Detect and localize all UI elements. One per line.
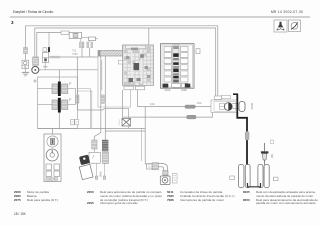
label box right of F1 — [172, 174, 177, 183]
svg-text:(M): (M) — [270, 154, 274, 158]
bolt terminal — [261, 143, 269, 165]
plus sign — [33, 79, 36, 82]
svg-text:2: 2 — [119, 123, 121, 126]
sleeve pair P1 — [80, 42, 84, 48]
icon box 1 (lamp symbol) — [274, 20, 287, 32]
coil link wire — [75, 89, 77, 105]
sleeve on W2 — [187, 115, 196, 119]
horn component F1 — [160, 176, 170, 185]
junction box JB — [98, 57, 131, 108]
wire long V-L1 — [94, 56, 101, 140]
key symbol — [79, 155, 93, 180]
wire T3 drop to R1 — [48, 32, 50, 47]
junction circle C1 — [32, 66, 39, 73]
starter relay box — [211, 100, 237, 113]
label D36 — [230, 176, 235, 180]
header left text — [13, 11, 53, 14]
svg-text:2060: 2060 — [250, 102, 254, 109]
battery cable — [237, 94, 247, 167]
module bottom label 1 — [124, 86, 134, 90]
coil 2 down wire — [58, 113, 60, 129]
sleeve on left wire — [24, 48, 28, 54]
svg-text:F: F — [69, 82, 71, 86]
frame bar 2 — [245, 165, 250, 188]
wire top T1 — [26, 26, 218, 96]
elbow boot — [158, 164, 167, 176]
nested enclosure corner — [78, 89, 92, 128]
header right text — [271, 11, 303, 14]
coil 2 stub left — [38, 104, 53, 106]
sleeve on W1 — [185, 105, 195, 108]
label D14 — [273, 177, 278, 181]
legend group 3 — [167, 191, 174, 194]
legend group 2 — [87, 191, 94, 194]
fuse box label right — [196, 49, 200, 54]
wire long V-L2 — [104, 56, 106, 140]
harness cap — [98, 50, 100, 57]
legend group 4 — [243, 191, 250, 194]
bus wire to box — [49, 56, 99, 58]
key transponder sleeve B — [102, 140, 108, 151]
key connector pigtails — [97, 163, 105, 176]
elbow sleeve — [163, 171, 168, 176]
wire B2-B3 — [82, 37, 89, 39]
enclosure box around coils — [38, 77, 78, 129]
battery cable top — [233, 93, 238, 95]
coil 1 stub left — [38, 88, 53, 90]
wire H2 long — [38, 128, 146, 130]
ground G2 — [43, 67, 48, 70]
svg-text:160a: 160a — [99, 171, 103, 177]
module bottom label 2 — [135, 86, 145, 90]
connector under sleeve B — [103, 152, 109, 164]
sleeve pair P2 — [87, 42, 93, 48]
wire to starter motor connector — [25, 54, 27, 61]
sheet number 3 — [11, 21, 14, 24]
sleeve on V-L1 — [101, 95, 104, 103]
legend group 1 — [14, 191, 21, 194]
frame bar 1 — [239, 165, 244, 188]
wire parallel — [141, 129, 143, 162]
relay R1 body — [43, 53, 49, 63]
component B2 — [69, 32, 81, 38]
label box B1 — [61, 31, 69, 34]
relay R1 label — [43, 48, 47, 52]
component B3 — [89, 37, 96, 41]
ignition switch module M1 — [44, 134, 61, 182]
wire B3 to box — [96, 38, 99, 40]
wire H3 — [105, 130, 145, 132]
central module U1 — [123, 45, 154, 86]
wire down from P1 — [81, 48, 83, 57]
connector row C2 — [147, 163, 159, 170]
module feed wire — [148, 28, 150, 45]
hatched band segment — [50, 56, 60, 59]
fuse box FB — [161, 44, 195, 88]
sleeve on W3 — [76, 95, 79, 103]
relay R1 connector bar — [48, 47, 50, 52]
svg-text:210b: 210b — [181, 88, 187, 92]
M1 feed wire — [52, 129, 54, 135]
svg-text:16A: 16A — [150, 102, 155, 106]
key transponder sleeve A — [92, 140, 97, 149]
cable sleeve — [245, 132, 249, 141]
frame bar 4 — [264, 165, 269, 188]
module left pin box — [118, 60, 122, 64]
connector K1 — [22, 60, 29, 68]
wire to ground G1 — [25, 69, 27, 73]
relay label box — [222, 95, 231, 98]
icon box 2 (crossed symbol) — [289, 20, 301, 32]
X connector X1 — [122, 118, 131, 126]
hatched harness band — [98, 51, 123, 57]
wire down from P2 — [89, 48, 91, 57]
header rule — [10, 16, 310, 18]
svg-text:210a: 210a — [165, 88, 171, 92]
svg-text:7080: 7080 — [72, 53, 78, 56]
wire W2 from module — [123, 90, 213, 117]
coil 1 stub right — [68, 88, 76, 90]
wire top T3 — [37, 32, 61, 57]
frame bar 3 — [258, 165, 263, 188]
wire H4 — [77, 109, 128, 119]
wire B2 to sleeve P1 — [80, 39, 82, 42]
page number — [14, 213, 26, 216]
ground strap link — [248, 183, 261, 187]
wire to ground — [44, 63, 46, 67]
connector under sleeve A — [89, 152, 100, 163]
wire down to connector row — [145, 107, 147, 165]
ground G1 — [22, 72, 29, 76]
sleeve S2 — [33, 57, 39, 65]
T wires connector box — [215, 96, 222, 99]
coil 2 stub right — [68, 104, 76, 106]
wire W1 from module — [138, 90, 216, 107]
svg-text:F: F — [69, 98, 71, 102]
svg-text:16A: 16A — [197, 101, 202, 105]
bolt top mark — [270, 140, 274, 144]
label pair above B4 — [71, 119, 79, 124]
wire H1 — [39, 69, 98, 71]
ignition coil 1 — [52, 82, 68, 97]
JB label text — [72, 50, 78, 56]
wire branch W3 — [76, 57, 78, 110]
solenoid pill — [232, 102, 245, 112]
wire through X1 — [128, 126, 130, 129]
wire top T2 — [35, 28, 216, 96]
wire B3 to sleeve P2 — [89, 41, 91, 42]
key link wires — [93, 155, 95, 159]
coil 1 feed — [58, 70, 60, 82]
ignition coil 2 — [52, 98, 68, 113]
